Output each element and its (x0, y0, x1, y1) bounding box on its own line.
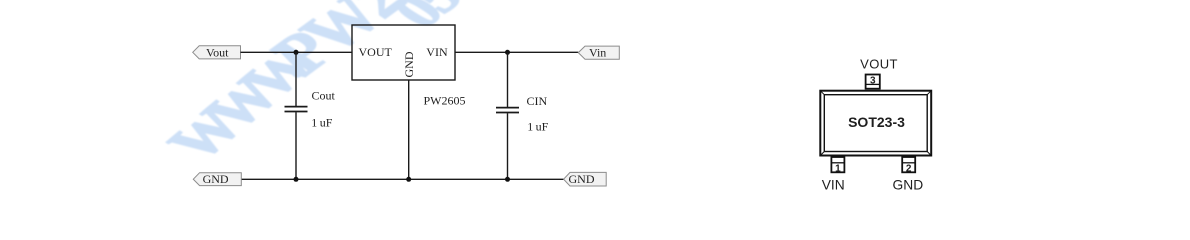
svg-text:GND: GND (203, 172, 229, 186)
svg-text:1 uF: 1 uF (527, 120, 548, 134)
svg-text:VOUT: VOUT (860, 56, 898, 71)
net flag GND left (193, 172, 241, 186)
package pin 1 (831, 157, 844, 175)
wire ground rail (241, 178, 563, 180)
svg-text:Cout: Cout (312, 89, 336, 103)
svg-text:GND: GND (402, 51, 416, 77)
node junction ground-Cout (294, 177, 299, 182)
capacitor CIN plates (496, 107, 519, 109)
net flag Vout (193, 45, 241, 59)
watermark WWW.PW (154, 0, 488, 170)
svg-text:2: 2 (906, 164, 912, 175)
svg-text:GND: GND (569, 172, 595, 186)
svg-text:3: 3 (870, 75, 876, 86)
wire CIN bottom plate to ground rail (507, 113, 509, 179)
node junction top-right (CIN tap) (505, 50, 510, 55)
svg-text:Vout: Vout (206, 45, 229, 59)
package body SOT23-3 (820, 91, 931, 156)
svg-text:VIN: VIN (822, 177, 845, 192)
wire U1 GND pin down to ground rail (408, 80, 410, 179)
package pin 3 (866, 75, 880, 89)
svg-text:1 uF: 1 uF (311, 116, 332, 130)
package pin 2 (902, 157, 915, 175)
svg-text:VIN: VIN (426, 45, 448, 59)
IC U1 PW2605 body (352, 25, 455, 80)
net flag GND right (564, 172, 607, 186)
svg-text:1: 1 (835, 164, 841, 175)
wire U1 VIN pin to Vin flag (455, 51, 578, 53)
net flag Vin (578, 46, 619, 60)
wire node A to Cout top plate (295, 52, 297, 106)
node junction ground-U1 (406, 177, 411, 182)
capacitor Cout plates (285, 106, 308, 108)
capacitor C1 Cout (285, 52, 336, 179)
wire Cout bottom plate to ground rail (295, 112, 297, 179)
svg-text:SOT23-3: SOT23-3 (848, 114, 905, 130)
node junction top-left (Cout tap) (294, 50, 299, 55)
svg-text:VOUT: VOUT (359, 45, 393, 59)
svg-text:GND: GND (893, 177, 924, 192)
wire node B to CIN top plate (507, 52, 509, 107)
svg-text:Vin: Vin (589, 46, 606, 60)
capacitor C2 CIN (496, 52, 549, 179)
wire Vout flag to U1 VOUT pin (241, 51, 353, 53)
svg-text:CIN: CIN (527, 94, 548, 108)
node junction ground-CIN (505, 177, 510, 182)
svg-text:PW2605: PW2605 (424, 94, 466, 108)
